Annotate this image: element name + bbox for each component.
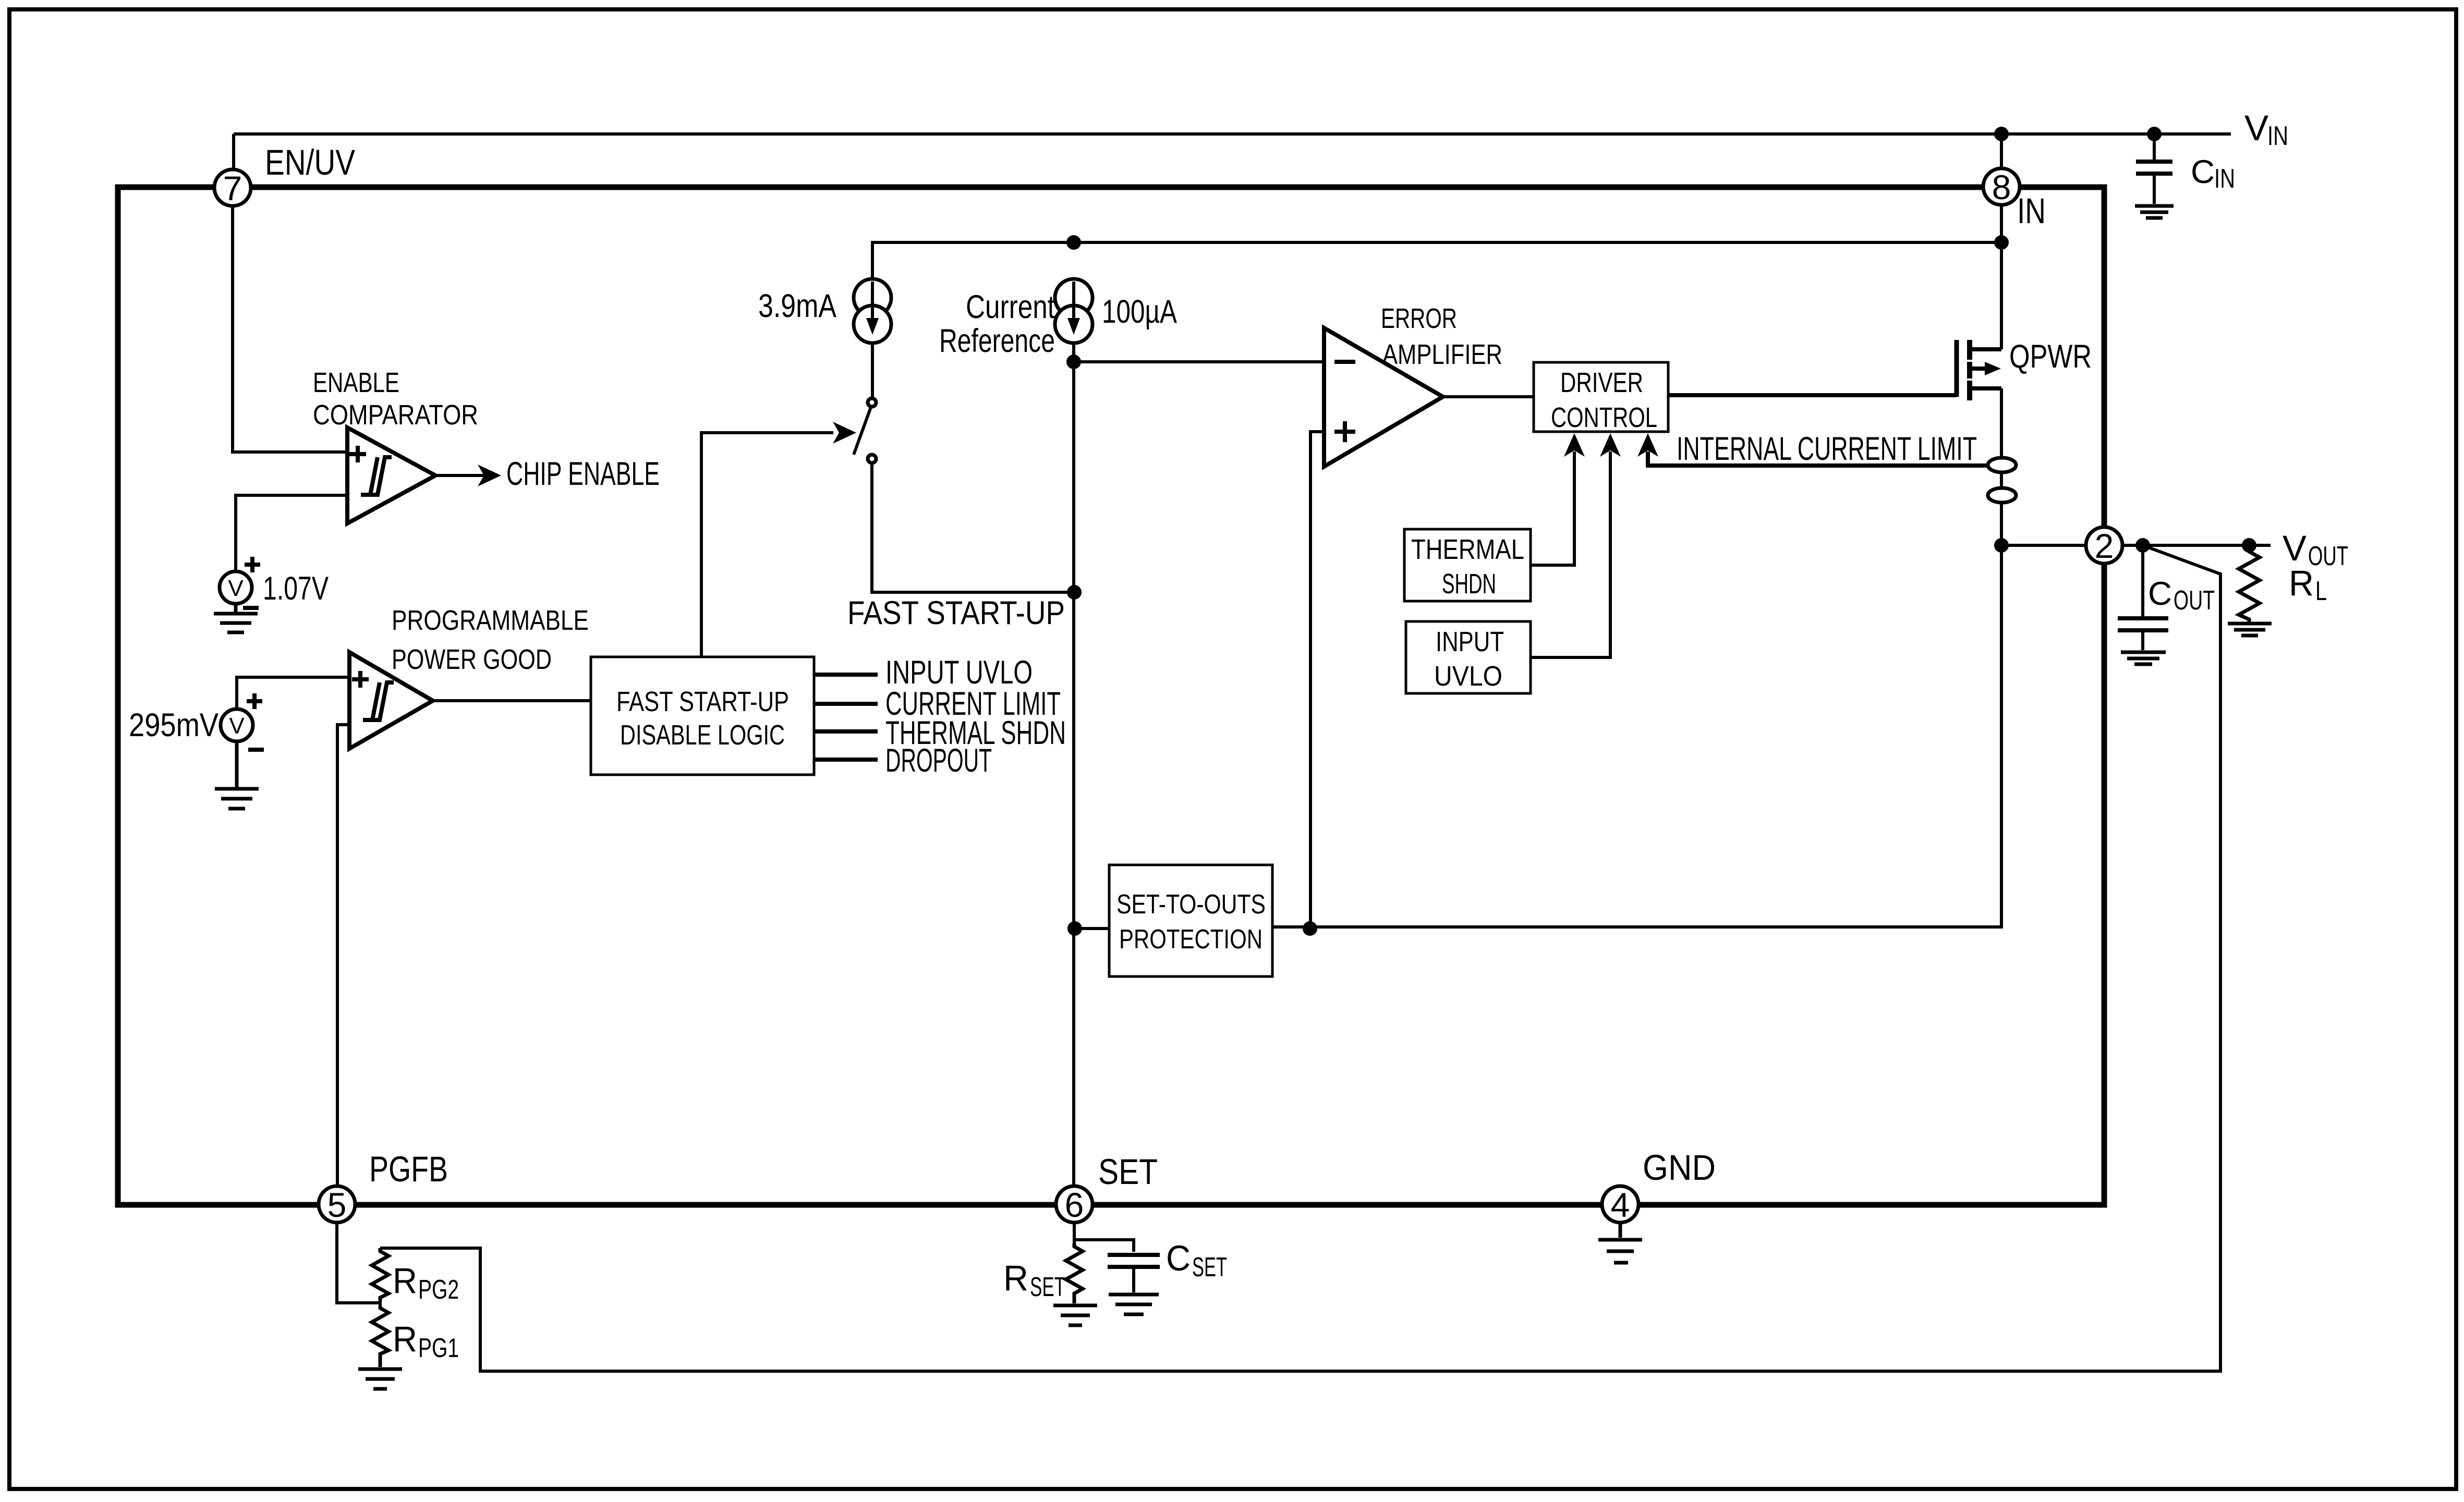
wire: riser from top rail down to pin 7 [232, 134, 235, 169]
wire: driver control output to QPWR gate [1668, 393, 1957, 397]
resistor RPG1 [372, 1306, 389, 1356]
V2 - sign [248, 748, 264, 752]
junction dot: fast start-up switch / SET rail [1067, 585, 1082, 600]
junction dot: top rail / CIN [2147, 127, 2162, 141]
svg-text:PGFB: PGFB [369, 1149, 448, 1189]
junction dot: top rail / pin 8 riser [1994, 127, 2009, 141]
svg-text:THERMAL: THERMAL [1411, 534, 1524, 565]
wire: pin 6 down to RSET / CSET branch [1073, 1223, 1076, 1243]
svg-text:OUT: OUT [2174, 585, 2215, 616]
error amplifier + sign [1334, 421, 1355, 442]
svg-text:CHIP ENABLE: CHIP ENABLE [506, 456, 660, 492]
wire: switch bottom contact down and over to SET rail [872, 463, 1074, 592]
svg-text:PROTECTION: PROTECTION [1119, 924, 1263, 955]
junction dot: output node below current limit rings [1994, 538, 2009, 553]
ground: below RPG1 [358, 1356, 402, 1389]
junction dot: VOUT / COUT branch [2135, 538, 2150, 553]
op-amp U2 programmable power good comparator triangle [349, 652, 433, 749]
junction dot: SET rail / SET-TO-OUTS input [1067, 921, 1082, 936]
wire: input UVLO to driver control arrow [1531, 451, 1610, 657]
svg-text:AMPLIFIER: AMPLIFIER [1382, 339, 1502, 370]
svg-text:3.9mA: 3.9mA [758, 288, 836, 324]
current source I2 100uA (two overlapping circles with down arrow) [1055, 279, 1093, 343]
junction dot: inner rail / 100uA source [1066, 235, 1081, 250]
V1 + sign [245, 557, 260, 572]
ground: below RL [2228, 624, 2272, 636]
power good comparator hysteresis glyph [363, 682, 394, 720]
svg-text:1.07V: 1.07V [263, 570, 329, 607]
wire: disable-logic box top riser to fast start-up switch arrow [701, 433, 833, 657]
svg-text:R: R [393, 1261, 417, 1301]
capacitor CSET [1108, 1255, 1160, 1292]
svg-text:C: C [1166, 1238, 1191, 1278]
pin 4 GND [1602, 1186, 1638, 1223]
wire: disable logic output stub CURRENT LIMIT [814, 702, 878, 706]
svg-text:V: V [229, 713, 245, 739]
pin 6 SET [1056, 1186, 1093, 1223]
svg-text:7: 7 [223, 169, 242, 207]
svg-text:PG1: PG1 [418, 1333, 459, 1363]
svg-text:DROPOUT: DROPOUT [885, 742, 992, 779]
wire: disable logic output stub THERMAL SHDN [814, 729, 878, 734]
wire: thermal shutdown to driver control arrow [1531, 451, 1574, 565]
current limit ring 2 on output line [1988, 488, 2016, 503]
junction dot: VOUT / RL branch [2242, 538, 2256, 553]
svg-text:SET: SET [1030, 1272, 1065, 1302]
wire: 295mV source to power-good comparator + input [237, 677, 349, 710]
switch SW1 blade [854, 407, 871, 455]
wire: RPG2 to RPG1 junction [379, 1300, 382, 1306]
wire: 3.9mA source to switch top contact [871, 343, 874, 398]
svg-text:DISABLE LOGIC: DISABLE LOGIC [620, 719, 785, 751]
voltage source V1 1.07V [220, 571, 252, 604]
svg-text:IN: IN [2017, 191, 2046, 231]
svg-text:L: L [2315, 576, 2327, 606]
wire: pin 8 down to QPWR drain [2000, 205, 2003, 349]
block: DRIVER CONTROL box [1534, 362, 1668, 432]
V1 - sign [243, 606, 259, 610]
wire: output node to pin 2 [2001, 544, 2086, 547]
svg-text:PG2: PG2 [418, 1275, 459, 1305]
current limit ring 1 on output line [1988, 458, 2016, 472]
wire: 1.07V source to enable comparator - input [236, 495, 347, 571]
wire: error amplifier + input riser from SET-TO-OUTS node [1310, 432, 1324, 929]
svg-text:IN: IN [2267, 121, 2288, 151]
ground: below COUT [2121, 652, 2166, 664]
transistor QPWR pass PMOS [1957, 340, 2001, 400]
svg-text:QPWR: QPWR [2009, 338, 2092, 375]
wire: SET rail down to pin 6 [1072, 362, 1075, 1186]
svg-text:295mV: 295mV [129, 707, 219, 743]
arrowhead: current limit into driver control [1637, 433, 1658, 457]
switch SW1 fast start-up: top contact [868, 398, 876, 407]
IC boundary box [118, 187, 2104, 1205]
block: THERMAL SHDN box [1404, 529, 1531, 601]
QPWR body arrow [1970, 367, 1985, 371]
V2 + sign [247, 693, 262, 709]
arrowhead: chip enable [478, 465, 501, 486]
block: INPUT UVLO box [1406, 621, 1531, 693]
wire: pin 8 riser from VIN rail [2000, 134, 2003, 168]
error amplifier - sign [1334, 360, 1355, 364]
wire: current reference to error amplifier - input [1074, 360, 1324, 363]
svg-text:EN/UV: EN/UV [265, 142, 355, 182]
svg-text:PROGRAMMABLE: PROGRAMMABLE [392, 605, 589, 636]
capacitor CIN [2136, 141, 2172, 204]
wire: SET rail to SET-TO-OUTS box [1075, 927, 1109, 930]
voltage source V2 295mV [221, 709, 253, 741]
svg-text:SHDN: SHDN [1442, 568, 1496, 600]
svg-text:Reference: Reference [939, 323, 1055, 359]
svg-text:R: R [2289, 563, 2314, 603]
junction dot: current reference / error amp - input [1066, 355, 1081, 369]
wire: pin 2 out to VOUT terminal [2122, 544, 2271, 547]
svg-text:DRIVER: DRIVER [1560, 367, 1643, 398]
svg-text:SET: SET [1098, 1152, 1158, 1192]
svg-text:SET-TO-OUTS: SET-TO-OUTS [1116, 889, 1266, 920]
svg-text:6: 6 [1065, 1186, 1084, 1224]
ground: below RSET [1053, 1298, 1097, 1325]
svg-text:ERROR: ERROR [1381, 303, 1457, 334]
svg-text:CONTROL: CONTROL [1551, 402, 1657, 433]
svg-text:C: C [2191, 154, 2215, 190]
svg-text:SET: SET [1192, 1252, 1227, 1283]
svg-text:C: C [2148, 576, 2172, 612]
svg-text:FAST START-UP: FAST START-UP [847, 595, 1065, 631]
svg-text:GND: GND [1643, 1147, 1716, 1188]
current source I1 3.9mA (two overlapping circles with down arrow) [854, 279, 891, 343]
junction dot: SET-TO-OUTS output / error amp + riser [1303, 921, 1317, 936]
wire: power-good comparator output to disable-logic box [433, 699, 591, 702]
wire: disable logic output stub DROPOUT [814, 758, 878, 762]
switch SW1 bottom contact [868, 455, 876, 463]
arrowhead: fast start-up switch actuator [833, 422, 856, 444]
ground: below pin 4 GND [1598, 1223, 1642, 1263]
resistor RL load [2239, 545, 2260, 622]
svg-text:4: 4 [1611, 1186, 1630, 1224]
svg-text:OUT: OUT [2308, 541, 2348, 571]
wire: inner IN rail feeding both current sources [872, 242, 2001, 279]
enable comparator hysteresis glyph [361, 457, 392, 495]
wire: VOUT node diagonal feed to PGFB divider [380, 545, 2220, 1371]
QPWR channel segments [1967, 340, 1972, 400]
wire: pin 5 down to RPG divider midpoint [337, 1223, 380, 1303]
QPWR source stub [1970, 386, 2001, 390]
svg-text:5: 5 [327, 1186, 347, 1224]
capacitor COUT [2118, 545, 2168, 650]
svg-text:INTERNAL CURRENT LIMIT: INTERNAL CURRENT LIMIT [1677, 431, 1977, 467]
svg-text:ENABLE: ENABLE [313, 367, 399, 398]
svg-text:POWER GOOD: POWER GOOD [392, 644, 552, 675]
ground: below 1.07V source [214, 604, 258, 632]
wire: enable comparator output to CHIP ENABLE [435, 474, 484, 477]
wire: PGFB pin 5 riser to power-good comparator - input [337, 725, 349, 1186]
svg-text:V: V [2283, 528, 2307, 568]
QPWR gate bar [1955, 340, 1959, 397]
svg-text:Current: Current [966, 289, 1055, 325]
ground: below CSET [1109, 1295, 1159, 1314]
block: SET-TO-OUTS PROTECTION box [1109, 865, 1272, 976]
op-amp U3 error amplifier triangle [1324, 328, 1443, 467]
svg-text:FAST START-UP: FAST START-UP [616, 686, 789, 717]
svg-text:R: R [393, 1319, 417, 1359]
wire: branch over to CSET [1074, 1240, 1134, 1252]
svg-text:INPUT: INPUT [1436, 626, 1504, 657]
svg-text:8: 8 [1992, 168, 2011, 206]
wire: 100uA source bottom to SET rail junction [1072, 343, 1075, 362]
wire: QPWR source down through current-limit rings to output node [2000, 388, 2003, 545]
ground: below 295mV source [215, 741, 259, 809]
arrowhead: input UVLO into driver control [1600, 433, 1621, 457]
pin 7 EN/UV [214, 169, 251, 206]
op-amp U1 enable comparator triangle [347, 428, 435, 523]
svg-text:V: V [2244, 108, 2268, 148]
wire: VIN top rail from EN/UV corner to VIN terminal [234, 132, 2231, 136]
enable comparator + sign [349, 446, 366, 462]
resistor RPG2 [372, 1248, 389, 1300]
wire: error amplifier output to driver control [1443, 395, 1534, 398]
svg-text:V: V [228, 576, 244, 601]
junction dot: inner rail / pin 8 wire [1994, 235, 2009, 250]
svg-text:R: R [1003, 1258, 1028, 1298]
svg-text:COMPARATOR: COMPARATOR [313, 399, 478, 431]
wire: internal current limit sense to driver control arrow [1648, 451, 1988, 466]
wire: disable logic output stub INPUT UVLO [814, 673, 878, 677]
wire: output node down and left to SET-TO-OUTS / error amp feedback [1272, 545, 2001, 927]
svg-text:UVLO: UVLO [1434, 661, 1502, 692]
svg-text:2: 2 [2095, 527, 2114, 565]
wire: pin 7 down to enable comparator + input [233, 206, 347, 452]
QPWR drain stub [1970, 347, 2001, 351]
pin 2 OUT [2086, 527, 2122, 564]
arrowhead: thermal shutdown into driver control [1564, 433, 1585, 457]
power good comparator + sign [352, 671, 369, 688]
pin 5 PGFB [319, 1186, 355, 1223]
pin 8 IN [1983, 168, 2020, 205]
svg-text:IN: IN [2214, 164, 2235, 194]
block: FAST START-UP DISABLE LOGIC box [591, 657, 814, 775]
svg-text:100µA: 100µA [1102, 294, 1177, 330]
resistor RSET [1066, 1243, 1083, 1298]
ground: below CIN [2135, 206, 2174, 218]
